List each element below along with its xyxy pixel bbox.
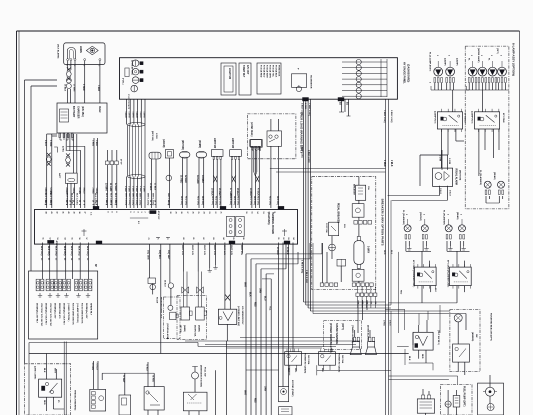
overload relay	[267, 131, 282, 146]
flasher wires1	[406, 241, 431, 267]
svg-text:4: 4	[136, 212, 139, 213]
label long	[301, 145, 310, 283]
label va	[455, 168, 461, 185]
svg-text:RED 2SQ: RED 2SQ	[233, 196, 235, 205]
h wires bottom mid	[185, 338, 360, 349]
svg-text:5 WHT: 5 WHT	[143, 112, 145, 119]
wire lbl j	[181, 245, 242, 256]
svg-text:BLK: BLK	[249, 292, 251, 297]
alarm box pins	[66, 59, 101, 67]
conn box E4	[230, 150, 242, 160]
svg-text:C1 C2 C3 C4 C5: C1 C2 C3 C4 C5	[127, 94, 130, 110]
crossover tw7	[225, 295, 230, 301]
svg-text:(OPT): (OPT)	[496, 48, 498, 54]
svg-text:HOURMETER: HOURMETER	[310, 75, 312, 89]
svg-text:8: 8	[167, 204, 169, 205]
svg-text:62: 62	[282, 238, 284, 240]
wires E1	[180, 158, 188, 208]
svg-text:(KEY SW): (KEY SW)	[151, 131, 153, 141]
svg-text:80: 80	[182, 238, 184, 240]
svg-text:LIMIT SW: LIMIT SW	[213, 138, 215, 149]
svg-text:86: 86	[242, 238, 244, 240]
lamp stub labels2	[470, 48, 502, 67]
svg-text:2 RED: 2 RED	[91, 188, 93, 195]
crossover tw5	[229, 176, 238, 197]
motor M2	[417, 395, 434, 413]
relay K7 wires	[409, 320, 433, 370]
svg-text:15A: 15A	[367, 186, 370, 190]
svg-text:2SQ WHT: 2SQ WHT	[167, 250, 169, 260]
svg-text:52: 52	[49, 238, 51, 240]
wires panel right down	[304, 99, 311, 311]
svg-text:43: 43	[50, 212, 53, 214]
svg-text:(DASH BOARD): (DASH BOARD)	[407, 64, 410, 82]
svg-text:WHT: WHT	[244, 282, 246, 288]
horn symbol	[67, 48, 75, 59]
component U5	[165, 150, 173, 158]
breaker sym	[329, 244, 336, 251]
cable loom sheath	[128, 123, 145, 179]
lamp LP2	[446, 67, 455, 76]
lamp LP3 pins	[468, 78, 477, 83]
svg-text:8: 8	[110, 204, 112, 205]
flasher56 wires	[486, 196, 503, 203]
prop valve conn	[148, 278, 156, 294]
svg-text:7 WHT 5.5SQ: 7 WHT 5.5SQ	[308, 103, 310, 116]
conn strip P3	[352, 283, 373, 286]
svg-text:2 RED: 2 RED	[91, 140, 93, 147]
svg-text:56: 56	[78, 238, 80, 240]
svg-text:BLK: BLK	[43, 368, 45, 373]
svg-text:1 BLU: 1 BLU	[439, 188, 441, 194]
panel box	[120, 58, 398, 99]
svg-text:18 BLK: 18 BLK	[64, 84, 66, 92]
svg-text:(HOUR): (HOUR)	[162, 139, 164, 148]
svg-text:(MAIN): (MAIN)	[198, 325, 201, 332]
svg-text:RED: RED	[254, 302, 256, 307]
svg-text:72: 72	[166, 238, 168, 240]
solenoid valve S1	[182, 272, 189, 308]
svg-text:73 BLK: 73 BLK	[145, 364, 147, 372]
svg-text:8: 8	[106, 212, 108, 213]
svg-text:UP SOL: UP SOL	[179, 325, 181, 334]
central box	[35, 210, 298, 245]
svg-text:RED 2SQ: RED 2SQ	[215, 196, 217, 205]
panel sub-box3	[257, 63, 281, 94]
flasher wires2	[447, 241, 470, 267]
svg-text:RED: RED	[400, 290, 402, 295]
svg-text:(TILT ALARM): (TILT ALARM)	[57, 44, 60, 59]
label dash board	[403, 62, 410, 84]
svg-text:(FUEL): (FUEL)	[122, 78, 124, 85]
svg-text:TERMINAL BOARD: TERMINAL BOARD	[271, 212, 274, 234]
svg-text:21 BLK: 21 BLK	[154, 183, 156, 191]
label speakers	[351, 325, 369, 343]
svg-text:25: 25	[197, 212, 199, 214]
svg-text:1 BLK: 1 BLK	[95, 140, 97, 147]
svg-text:53: 53	[56, 238, 58, 240]
wire lbl c	[65, 188, 84, 195]
svg-text:(FRONT): (FRONT)	[419, 212, 421, 221]
svg-text:8 8: 8 8	[137, 221, 139, 224]
relay K34 wires	[400, 286, 465, 303]
svg-text:2 GRN: 2 GRN	[82, 84, 84, 91]
svg-text:RED 2SQ: RED 2SQ	[211, 196, 213, 205]
svg-text:F1 10A RED: F1 10A RED	[260, 65, 263, 78]
label lamps2	[468, 58, 490, 61]
svg-text:16: 16	[245, 212, 247, 214]
relay K1	[437, 109, 462, 132]
svg-text:2: 2	[422, 214, 424, 215]
lamp LP3	[468, 67, 477, 76]
wires prop	[149, 244, 170, 354]
svg-text:FOOT SW: FOOT SW	[325, 223, 327, 233]
svg-text:2: 2	[460, 214, 462, 215]
label K7	[408, 330, 439, 361]
svg-text:24V 100A: 24V 100A	[307, 355, 310, 365]
wires long pair	[304, 302, 450, 311]
beacon sw wires	[458, 362, 465, 375]
lamp group1 wires	[435, 83, 454, 90]
central conn marks top	[93, 206, 284, 220]
svg-text:WHT 1.25SQ: WHT 1.25SQ	[146, 193, 148, 206]
lamp LP2 pins	[446, 78, 455, 83]
svg-text:8 GRN: 8 GRN	[78, 188, 80, 195]
fuse f5	[75, 279, 83, 291]
gauge gD	[131, 85, 138, 92]
fuse labels	[36, 303, 93, 327]
svg-text:5 WHT: 5 WHT	[135, 112, 137, 119]
svg-text:4P CONN: 4P CONN	[502, 113, 505, 123]
bus stub downs	[286, 243, 322, 269]
svg-text:WHT 1.25SQ: WHT 1.25SQ	[124, 193, 126, 206]
alarm buzzer	[86, 46, 98, 55]
valve block V2	[90, 389, 106, 411]
svg-text:DIODE(4x) 24V: DIODE(4x) 24V	[85, 303, 88, 319]
svg-text:1 RED 5.5SQ: 1 RED 5.5SQ	[301, 145, 303, 158]
label pedal breaker	[337, 203, 340, 223]
svg-text:14: 14	[256, 212, 259, 214]
svg-text:8: 8	[149, 204, 151, 205]
aux box	[337, 259, 346, 266]
svg-text:2SQ GRN: 2SQ GRN	[147, 250, 149, 260]
bus corners	[246, 254, 322, 279]
flasher F2 pins	[422, 235, 427, 240]
wire pair mid	[47, 134, 57, 208]
svg-text:FL (FLASHER): FL (FLASHER)	[443, 210, 446, 225]
svg-text:30: 30	[167, 200, 169, 202]
dd box right mid	[324, 321, 362, 350]
lamp LP4 pins	[478, 78, 487, 83]
wires below left	[42, 243, 88, 280]
svg-text:2: 2	[66, 65, 68, 66]
fuelpump body	[478, 383, 504, 415]
svg-text:30: 30	[69, 200, 71, 202]
relay K5	[285, 349, 302, 366]
speaker SP1	[350, 337, 361, 354]
svg-text:30: 30	[169, 212, 171, 214]
svg-text:6: 6	[129, 212, 131, 213]
svg-text:BLK 2SQ: BLK 2SQ	[70, 246, 72, 256]
svg-text:BATT: BATT	[58, 173, 61, 179]
lamp LP6 pins	[498, 78, 507, 83]
panel sub-box2	[239, 63, 251, 95]
svg-text:(MOTOR): (MOTOR)	[181, 140, 183, 150]
conn strip P5	[356, 293, 377, 305]
svg-text:FL (FLASHER): FL (FLASHER)	[402, 210, 405, 225]
svg-text:(TRAVEL ALARM): (TRAVEL ALARM)	[351, 325, 354, 343]
svg-text:30: 30	[82, 200, 84, 202]
svg-text:12 BLK: 12 BLK	[114, 183, 116, 191]
label U5	[162, 139, 164, 148]
crossover tw4	[211, 176, 221, 197]
svg-text:VOLT RLY 12V 24V DC: VOLT RLY 12V 24V DC	[40, 303, 43, 327]
svg-text:70 GRN: 70 GRN	[91, 363, 93, 371]
svg-text:8: 8	[44, 204, 46, 205]
fuse f1	[36, 279, 44, 291]
panel sub-box1	[221, 63, 236, 95]
bus verticals	[246, 254, 271, 415]
svg-text:MOTOR (PUMP): MOTOR (PUMP)	[291, 380, 293, 397]
labels above conns	[181, 138, 233, 150]
wire lbl f	[300, 103, 310, 116]
svg-text:8: 8	[72, 204, 74, 205]
panel term lines	[342, 62, 387, 96]
svg-text:5 WHT: 5 WHT	[128, 112, 130, 119]
svg-text:CHARGER: CHARGER	[77, 106, 80, 119]
svg-text:6 BLU: 6 BLU	[44, 140, 46, 146]
svg-text:2 BLK: 2 BLK	[389, 320, 391, 326]
svg-text:4P CONN (FLASHER UNIT): 4P CONN (FLASHER UNIT)	[447, 260, 450, 287]
label batt	[58, 146, 64, 179]
svg-text:2: 2	[446, 214, 448, 215]
svg-text:35 BLK: 35 BLK	[211, 188, 213, 196]
label K3	[412, 260, 415, 287]
label S2	[194, 325, 201, 337]
wire top labels	[44, 193, 169, 206]
svg-text:R2 470 OHM 10W 5%: R2 470 OHM 10W 5%	[72, 303, 75, 325]
svg-text:2 BLU: 2 BLU	[449, 190, 451, 196]
svg-text:15: 15	[251, 212, 253, 214]
svg-text:1 RED: 1 RED	[97, 85, 99, 92]
svg-text:RED 2SQ: RED 2SQ	[276, 196, 278, 205]
svg-text:26: 26	[191, 212, 193, 214]
svg-text:30: 30	[65, 200, 67, 202]
svg-text:42: 42	[56, 212, 59, 214]
svg-text:HY GAUGE PANEL: HY GAUGE PANEL	[403, 62, 406, 84]
svg-text:30: 30	[44, 200, 46, 202]
svg-text:11: 11	[273, 212, 275, 214]
svg-text:29: 29	[175, 212, 177, 214]
svg-text:6-LAMP ASSY (OPTION): 6-LAMP ASSY (OPTION)	[512, 43, 516, 76]
wires E2	[196, 158, 204, 208]
svg-text:37: 37	[84, 212, 86, 214]
fuse f2	[46, 279, 54, 291]
relay K6	[319, 349, 336, 366]
svg-text:38 BLU: 38 BLU	[236, 188, 238, 196]
svg-text:(AMBER): (AMBER)	[471, 332, 474, 342]
svg-text:34 WHT: 34 WHT	[201, 175, 204, 184]
svg-text:BLK 2SQ: BLK 2SQ	[86, 246, 88, 256]
svg-text:(LOWER LIMIT SW): (LOWER LIMIT SW)	[237, 306, 239, 326]
flasher F6 pins	[498, 190, 503, 195]
svg-text:F6 20A BLK: F6 20A BLK	[275, 65, 278, 78]
svg-text:AT HR BP CHG: AT HR BP CHG	[131, 60, 134, 75]
flasher F5 pins	[485, 190, 490, 195]
wires pedal out	[358, 286, 376, 308]
svg-text:2-WAY: 2-WAY	[367, 246, 370, 254]
central conn marks bottom	[48, 240, 291, 246]
conn box E3	[211, 150, 223, 160]
svg-text:BLU: BLU	[264, 296, 266, 301]
svg-text:WHT 1.25: WHT 1.25	[191, 245, 193, 256]
svg-text:51: 51	[41, 238, 43, 240]
wires CN3 up	[108, 150, 117, 161]
svg-text:FL (2-LAMP ASSY): FL (2-LAMP ASSY)	[429, 52, 432, 72]
label emerg	[200, 365, 206, 387]
relay K56 labels	[287, 368, 323, 373]
label travel steer	[74, 390, 77, 411]
relay V1	[218, 309, 236, 324]
svg-text:74 RED: 74 RED	[152, 375, 155, 383]
alarm box A1	[64, 43, 105, 65]
panel term verticals	[381, 59, 387, 97]
svg-text:(LOAD CELL): (LOAD CELL)	[250, 122, 253, 137]
wires E3	[214, 160, 221, 209]
conn oval E2	[196, 151, 206, 158]
fuse f3	[54, 279, 62, 291]
svg-text:8: 8	[111, 212, 113, 213]
svg-text:PEDAL BREAKER: PEDAL BREAKER	[337, 203, 340, 223]
svg-text:1 RED 5.5SQ: 1 RED 5.5SQ	[301, 260, 303, 274]
gnd stubs mid	[208, 265, 218, 272]
label K4	[447, 260, 450, 287]
svg-text:(LAMP RLY): (LAMP RLY)	[434, 111, 437, 124]
svg-text:WHT: WHT	[54, 368, 56, 374]
wires panel down	[127, 99, 146, 208]
svg-text:RED 2SQ: RED 2SQ	[249, 196, 251, 205]
svg-text:( 2-WAY OPTION ): ( 2-WAY OPTION )	[67, 303, 70, 322]
svg-text:RED 2SQ: RED 2SQ	[268, 196, 270, 205]
label travel relay	[34, 366, 60, 405]
lamp LP6	[498, 67, 507, 76]
svg-text:11 GRN: 11 GRN	[109, 183, 111, 192]
svg-text:24: 24	[203, 212, 206, 214]
fuse f4	[63, 279, 71, 291]
flasher F4	[459, 225, 466, 232]
svg-text:RED 2SQ: RED 2SQ	[196, 196, 198, 205]
svg-text:2 BLK 5.5SQ: 2 BLK 5.5SQ	[308, 150, 310, 163]
travel relay	[39, 379, 62, 397]
gnd lamp2	[464, 82, 469, 90]
wires long pair2	[313, 243, 466, 314]
svg-text:(LAMP RLY): (LAMP RLY)	[471, 111, 474, 124]
wire left bus 1	[25, 80, 58, 364]
svg-text:30: 30	[114, 200, 116, 202]
svg-text:WHT 1.25: WHT 1.25	[230, 245, 232, 256]
wires bottom right	[448, 390, 456, 415]
svg-text:72 WHT: 72 WHT	[122, 375, 124, 383]
svg-text:(OPT): (OPT)	[341, 323, 344, 330]
svg-text:LIGHT SW: LIGHT SW	[228, 68, 230, 80]
svg-text:2 GRN: 2 GRN	[448, 158, 450, 165]
svg-text:5 WHT: 5 WHT	[131, 112, 133, 119]
relay K4	[450, 264, 472, 289]
overload out line	[270, 169, 386, 173]
svg-text:5 WHT: 5 WHT	[143, 186, 145, 193]
breaker sw	[352, 204, 364, 218]
svg-text:8: 8	[69, 204, 71, 205]
pedal option box	[312, 177, 376, 290]
svg-text:WHT 1.25: WHT 1.25	[240, 245, 242, 256]
svg-text:2: 2	[69, 65, 71, 66]
svg-text:5: 5	[133, 212, 135, 213]
svg-text:POWER RLY (AUX): POWER RLY (AUX)	[337, 353, 340, 373]
label K5	[304, 353, 311, 374]
svg-text:54: 54	[63, 238, 66, 240]
svg-text:2: 2	[144, 212, 146, 213]
svg-text:RED 2SQ: RED 2SQ	[229, 196, 231, 205]
svg-text:DIODE(4x) VOLT RLY: DIODE(4x) VOLT RLY	[63, 303, 66, 325]
svg-text:RED 2SQ: RED 2SQ	[180, 196, 182, 205]
svg-text:PULL SW: PULL SW	[204, 367, 206, 376]
svg-text:GRN: GRN	[259, 288, 261, 293]
svg-text:(TILT SW RLY): (TILT SW RLY)	[437, 330, 439, 345]
connector CN4	[149, 152, 161, 159]
svg-text:(REAR): (REAR)	[456, 212, 459, 220]
svg-text:56: 56	[86, 258, 88, 260]
svg-text:6 RED: 6 RED	[304, 103, 306, 110]
crossover tw6	[249, 176, 260, 197]
wires br verticals	[405, 305, 440, 365]
overload sensor probe	[250, 122, 257, 176]
svg-text:5 WHT: 5 WHT	[131, 186, 133, 193]
relay K2	[475, 109, 500, 132]
wires alarm down	[67, 61, 100, 103]
six lamp option box	[465, 46, 509, 209]
svg-text:RED 2SQ: RED 2SQ	[253, 196, 255, 205]
label 6lamp	[512, 43, 516, 76]
svg-text:28: 28	[180, 212, 182, 214]
svg-text:2: 2	[98, 65, 100, 66]
svg-text:8: 8	[154, 204, 156, 205]
svg-text:4P CONN (FLASHER UNIT): 4P CONN (FLASHER UNIT)	[412, 260, 415, 287]
svg-text:8: 8	[65, 204, 67, 205]
svg-text:TRAVEL/STEERING: TRAVEL/STEERING	[74, 390, 77, 411]
label K6	[337, 353, 344, 373]
central relay2	[236, 216, 244, 236]
svg-text:(24V 25A): (24V 25A)	[81, 106, 84, 117]
svg-text:70: 70	[147, 238, 149, 240]
svg-text:41: 41	[61, 212, 64, 214]
svg-text:55: 55	[71, 238, 73, 240]
wire lbl d	[105, 183, 117, 192]
charger pins below	[59, 133, 73, 138]
svg-text:WHT 1.25SQ: WHT 1.25SQ	[128, 193, 130, 206]
label S1	[179, 325, 186, 334]
small box B9	[453, 396, 460, 408]
svg-text:8: 8	[49, 204, 51, 205]
gnd lamp1	[429, 82, 435, 90]
component V3	[119, 373, 131, 415]
pump motor M1	[279, 387, 289, 402]
label option col	[166, 324, 169, 340]
svg-text:WHT 1.25: WHT 1.25	[203, 245, 205, 256]
label F56	[479, 170, 496, 185]
flasher F4 pins	[459, 235, 464, 240]
wires below mid	[183, 243, 242, 302]
motor M2 stub	[423, 389, 429, 415]
